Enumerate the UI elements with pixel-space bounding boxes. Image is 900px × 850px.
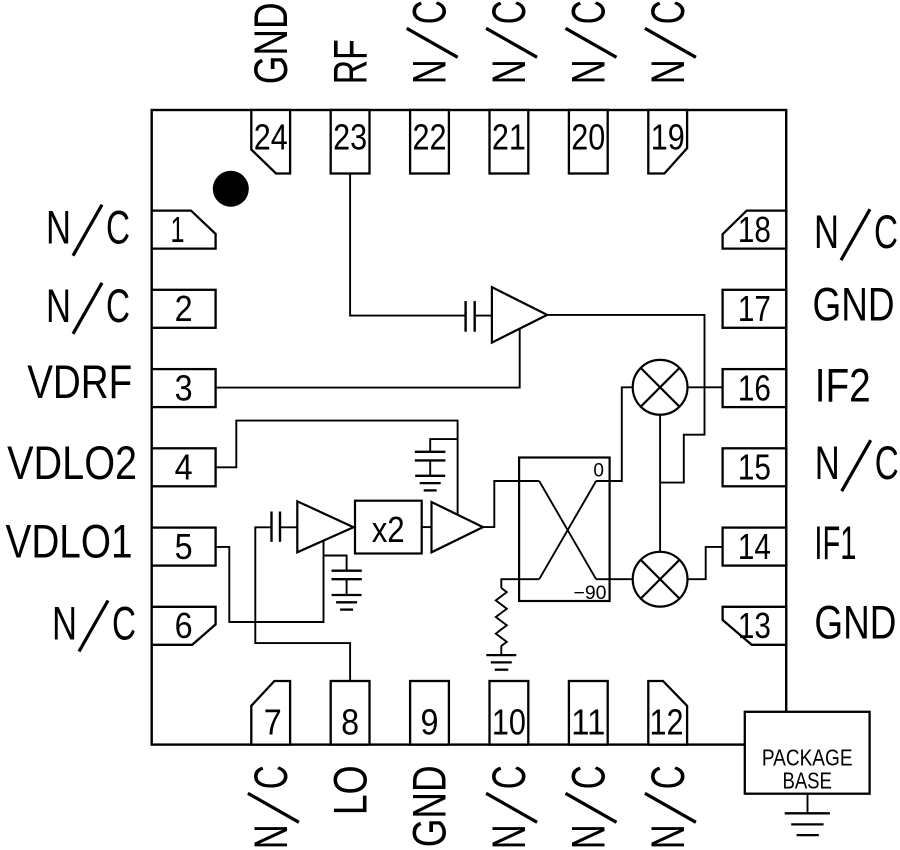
svg-text:BASE: BASE <box>782 768 832 794</box>
ground under C1 <box>415 476 445 491</box>
ground under resistor <box>486 655 516 670</box>
svg-text:1: 1 <box>171 209 185 250</box>
pin 22 <box>410 110 449 174</box>
svg-text:20: 20 <box>571 117 605 158</box>
wire RF input from pin 23 <box>350 174 466 316</box>
block x2 frequency doubler <box>355 501 422 554</box>
wire hybrid 0 output to mixer 1 <box>596 387 633 481</box>
svg-text:15: 15 <box>738 447 771 488</box>
wire C2 to ground <box>346 579 348 595</box>
svg-text:VDLO1: VDLO1 <box>6 515 133 568</box>
svg-text:LO: LO <box>323 765 376 815</box>
pin 4 <box>152 448 216 486</box>
capacitor LO input coupling <box>272 512 281 542</box>
resistor termination <box>496 588 507 654</box>
wire VDLO2 supply from pin 4 <box>216 421 458 515</box>
net label N/C pin 12 <box>641 765 696 849</box>
svg-text:5: 5 <box>175 526 193 567</box>
mixer 1 <box>633 360 688 415</box>
svg-text:7: 7 <box>264 702 282 743</box>
pin 19 <box>648 110 687 174</box>
pin 23 <box>331 110 370 174</box>
wire RF amp output to mixers <box>547 315 704 483</box>
pin 18 <box>723 211 787 249</box>
wire VDLO1 supply from pin 5 <box>216 541 324 622</box>
hybrid cross line B <box>539 481 596 579</box>
wire x2 to LO amp 2 <box>422 526 432 528</box>
pin 17 <box>723 290 787 328</box>
capacitor bypass C1 <box>415 452 446 461</box>
net label N/C pin 7 <box>244 765 299 849</box>
svg-text:19: 19 <box>651 117 685 158</box>
hybrid cross line A <box>539 481 596 579</box>
net label N/C pin 1 <box>46 201 130 256</box>
wire bypass cap 2 stub <box>324 556 347 571</box>
svg-text:IF1: IF1 <box>814 516 856 569</box>
pin 1 index dot <box>213 171 249 207</box>
pin 7 <box>251 681 290 745</box>
net label N/C pin 18 <box>814 205 898 260</box>
pin 24 <box>251 110 290 174</box>
svg-text:22: 22 <box>413 117 447 158</box>
svg-text:10: 10 <box>492 702 526 743</box>
capacitor bypass C2 <box>332 571 362 580</box>
pin 8 <box>331 681 370 745</box>
wire cap to LO amp <box>280 526 297 528</box>
PACKAGE BASE box <box>745 712 870 794</box>
pin 1 <box>152 211 216 249</box>
wire hybrid -90 output to mixer 2 <box>596 578 633 580</box>
svg-text:GND: GND <box>814 596 896 649</box>
svg-text:3: 3 <box>175 368 193 409</box>
pin 12 <box>648 681 687 745</box>
net label N/C pin 11 <box>562 765 617 849</box>
pin 15 <box>723 448 787 486</box>
wire mixer 2 to pin 14 IF1 <box>688 547 723 579</box>
svg-text:GND: GND <box>244 2 297 84</box>
pin 11 <box>569 681 608 745</box>
pin 3 <box>152 369 216 407</box>
svg-text:24: 24 <box>254 117 288 158</box>
op-amp RF amplifier <box>492 287 547 342</box>
svg-text:VDLO2: VDLO2 <box>7 436 137 489</box>
svg-text:21: 21 <box>492 117 526 158</box>
mixer 2 <box>633 552 688 607</box>
pin 21 <box>490 110 529 174</box>
svg-text:0: 0 <box>593 461 604 482</box>
net label N/C pin 15 <box>815 436 899 491</box>
capacitor RF input coupling <box>466 301 475 332</box>
ground package base <box>785 813 830 835</box>
svg-text:16: 16 <box>738 368 771 409</box>
op-amp LO amplifier U1 <box>297 501 353 552</box>
pin 6 <box>152 607 216 645</box>
svg-text:VDRF: VDRF <box>27 355 132 408</box>
net label N/C pin 19 <box>641 0 696 84</box>
net label N/C pin 21 <box>482 0 537 84</box>
wire VDRF supply from pin 3 <box>216 329 520 387</box>
pin 20 <box>569 110 608 174</box>
wire C1 to ground <box>429 460 431 475</box>
svg-text:13: 13 <box>738 605 771 646</box>
pin 10 <box>490 681 529 745</box>
svg-text:12: 12 <box>650 702 684 743</box>
hybrid 90 degree splitter box <box>519 458 610 602</box>
svg-text:GND: GND <box>813 278 895 331</box>
wire hybrid isolation port to resistor <box>501 579 539 588</box>
pin 5 <box>152 528 216 566</box>
pin 2 <box>152 290 216 328</box>
svg-text:4: 4 <box>175 447 193 488</box>
svg-text:18: 18 <box>738 209 771 250</box>
wire bypass cap 1 stub <box>430 439 457 452</box>
pin 13 <box>723 607 787 645</box>
svg-text:IF2: IF2 <box>815 359 871 412</box>
svg-text:9: 9 <box>421 702 439 743</box>
svg-text:RF: RF <box>323 39 376 84</box>
svg-text:−90: −90 <box>574 583 607 604</box>
pin 16 <box>723 369 787 407</box>
net label N/C pin 2 <box>46 279 130 334</box>
wire mixer 1 to pin 16 IF2 <box>688 386 723 388</box>
wire cap to RF amp <box>475 315 492 317</box>
op-amp LO amplifier U2 <box>432 502 484 552</box>
wire package base to ground <box>807 794 809 814</box>
svg-text:GND: GND <box>403 765 456 847</box>
net label N/C pin 10 <box>482 765 537 849</box>
package outline <box>152 110 787 745</box>
net label N/C pin 22 <box>403 0 458 84</box>
svg-text:23: 23 <box>333 117 367 158</box>
svg-text:x2: x2 <box>372 509 405 550</box>
ground under C2 <box>332 595 362 610</box>
svg-text:8: 8 <box>341 702 359 743</box>
wire LO amp 2 output to hybrid <box>483 481 539 527</box>
pin 9 <box>410 681 449 745</box>
svg-text:14: 14 <box>738 526 771 567</box>
wire RF junction between mixers <box>659 415 661 552</box>
svg-text:2: 2 <box>175 288 193 329</box>
svg-text:11: 11 <box>571 702 605 743</box>
svg-text:17: 17 <box>738 288 771 329</box>
svg-text:6: 6 <box>175 605 193 646</box>
net label N/C pin 20 <box>562 0 617 84</box>
svg-text:PACKAGE: PACKAGE <box>762 745 853 771</box>
label PACKAGE BASE <box>762 745 853 794</box>
net label N/C pin 6 <box>52 597 136 652</box>
pin 14 <box>723 528 787 566</box>
wire LO input from pin 8 <box>255 527 350 681</box>
